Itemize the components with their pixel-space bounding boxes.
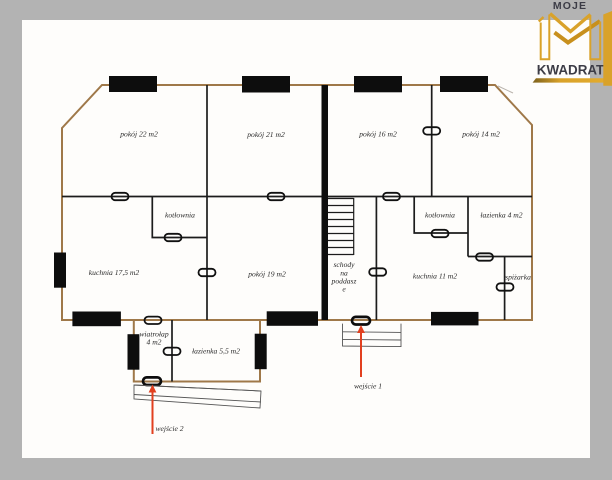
kotlownia-right walls xyxy=(414,197,468,234)
entrance door P13 xyxy=(143,377,161,385)
door P11 xyxy=(145,317,162,324)
window W6 bottom xyxy=(72,312,121,327)
svg-text:pokój 22 m2: pokój 22 m2 xyxy=(119,130,158,139)
svg-text:kuchnia 17,5 m2: kuchnia 17,5 m2 xyxy=(89,268,140,277)
logo gold banner xyxy=(603,11,612,86)
door P4 xyxy=(165,234,182,241)
outer wall xyxy=(62,85,532,320)
door P10 xyxy=(369,268,386,275)
staircase xyxy=(328,198,354,255)
svg-text:pokój 14 m2: pokój 14 m2 xyxy=(461,129,500,138)
door P1 xyxy=(112,193,129,200)
outside steps left xyxy=(134,385,261,408)
central thick wall xyxy=(322,85,329,320)
svg-text:pokój 21 m2: pokój 21 m2 xyxy=(246,130,285,139)
window W1 xyxy=(109,76,157,92)
svg-text:pokój 16 m2: pokój 16 m2 xyxy=(358,129,397,138)
logo monogram M xyxy=(539,14,600,60)
room labels xyxy=(89,129,531,433)
entry porch outline xyxy=(134,320,260,382)
window W8 bottom kuchnia11 xyxy=(431,312,479,326)
window W3 xyxy=(354,76,402,92)
kotlownia-left walls xyxy=(152,197,207,238)
spizarka left wall xyxy=(504,257,506,321)
svg-text:łazienka 5,5 m2: łazienka 5,5 m2 xyxy=(192,347,240,356)
svg-text:łazienka 4 m2: łazienka 4 m2 xyxy=(480,211,522,220)
wall H1 right xyxy=(328,196,532,198)
window W10 porch right xyxy=(255,334,267,370)
svg-text:kotłownia: kotłownia xyxy=(425,211,455,220)
svg-text:kotłownia: kotłownia xyxy=(165,211,195,220)
door P6 xyxy=(423,127,440,134)
door P5 xyxy=(383,193,400,200)
window W4 xyxy=(440,76,488,92)
svg-text:kuchnia 11 m2: kuchnia 11 m2 xyxy=(413,272,457,281)
svg-text:KWADRAT: KWADRAT xyxy=(537,62,605,77)
arrow wejscie1 xyxy=(357,325,365,377)
svg-text:4 m2: 4 m2 xyxy=(147,338,162,347)
wall V1 xyxy=(206,85,208,320)
lazienka4 left wall xyxy=(467,197,469,257)
window W2 xyxy=(242,76,290,93)
svg-text:wejście 2: wejście 2 xyxy=(155,424,183,433)
logo gold bar xyxy=(533,78,612,82)
svg-text:spiżarka: spiżarka xyxy=(505,273,531,282)
door pills xyxy=(112,127,514,355)
wall H1 left xyxy=(62,196,322,198)
svg-text:MOJE: MOJE xyxy=(553,0,587,12)
window W9 porch left xyxy=(128,334,140,370)
window W5 left wall xyxy=(54,253,66,288)
window W7 bottom xyxy=(267,311,318,326)
arrow wejscie2 xyxy=(149,385,157,435)
logo MOJE KWADRAT xyxy=(533,0,612,86)
pencil artifact xyxy=(498,86,513,93)
outside steps right xyxy=(343,324,402,347)
porch divider wall xyxy=(171,320,173,382)
door P9 xyxy=(497,283,514,290)
wall V2 pokoj16/14 xyxy=(431,85,433,197)
svg-text:wejście 1: wejście 1 xyxy=(354,382,382,391)
door P7 xyxy=(432,230,449,237)
door P12 xyxy=(164,348,181,355)
wall V3 kuchnia11 left xyxy=(375,197,377,321)
entrance door P14 xyxy=(352,317,370,325)
door P3 xyxy=(199,269,216,276)
svg-text:pokój 19 m2: pokój 19 m2 xyxy=(247,270,286,279)
door P8 xyxy=(476,253,493,260)
lazienka4 bottom wall xyxy=(468,256,532,258)
door P2 xyxy=(268,193,285,200)
